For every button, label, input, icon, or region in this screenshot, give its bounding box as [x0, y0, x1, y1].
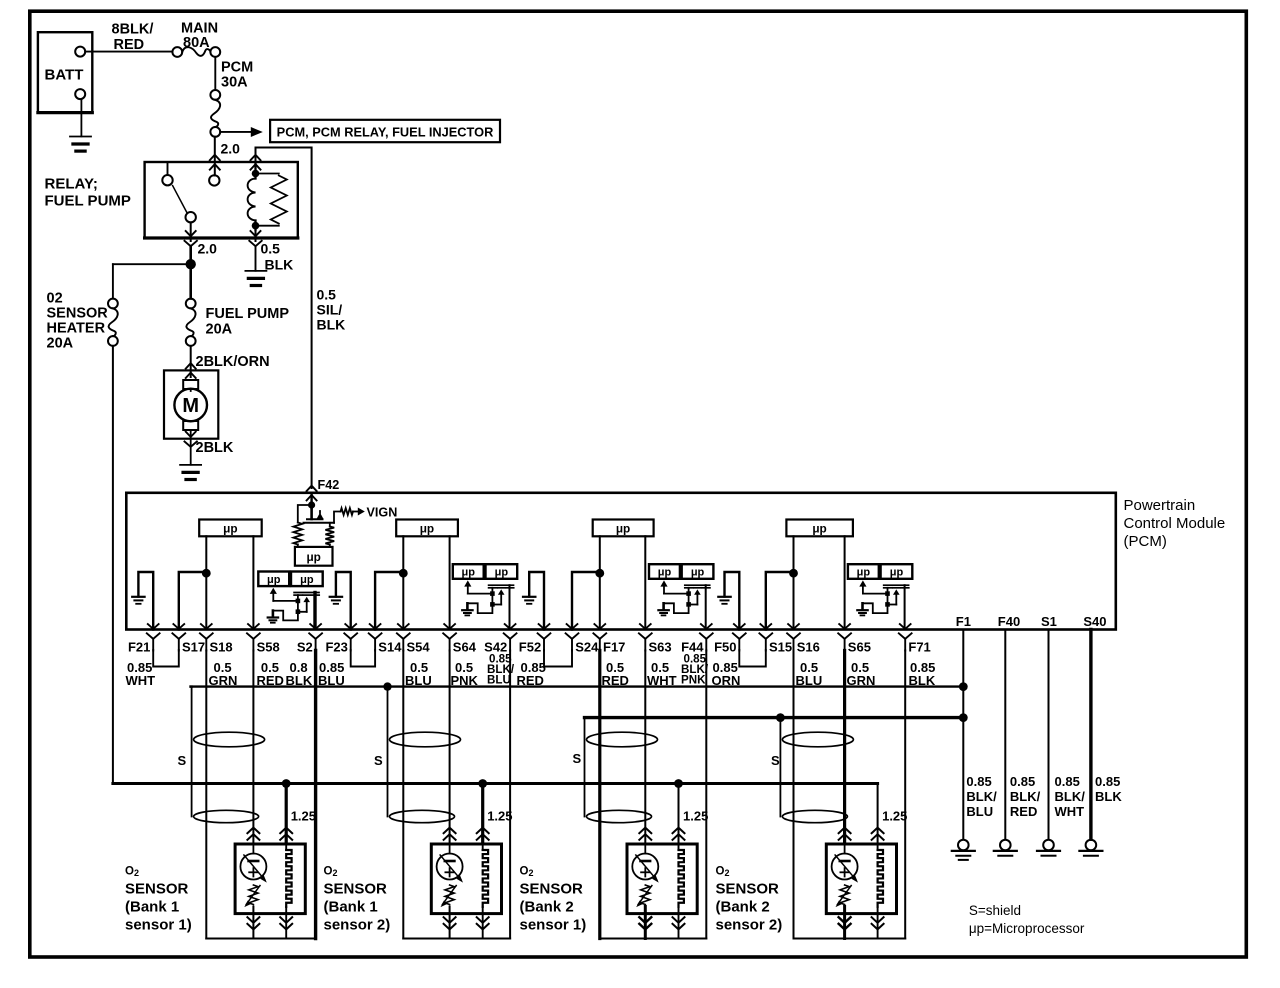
svg-text:S=shield: S=shield — [969, 903, 1021, 918]
node heater tap — [478, 779, 487, 788]
wire sensor minus — [252, 914, 254, 939]
ground (internal, F50) — [718, 596, 730, 598]
ground (internal, F21) — [132, 596, 144, 598]
relay switch common terminal — [209, 175, 219, 185]
svg-text:S14: S14 — [378, 640, 402, 655]
wire to pullup resistors — [298, 505, 312, 523]
svg-text:μp: μp — [812, 521, 826, 535]
node heater tap — [674, 779, 683, 788]
wire F40 to ground — [1004, 630, 1006, 840]
op-amp micro uP B group 3 — [682, 564, 714, 579]
svg-text:PCM, PCM RELAY, FUEL INJECTOR: PCM, PCM RELAY, FUEL INJECTOR — [277, 125, 494, 140]
wire shield drop S — [191, 687, 193, 817]
op-amp micro uP B group 4 — [881, 564, 913, 579]
svg-text:BLU: BLU — [487, 674, 511, 687]
wire microprocessor leg S65 — [844, 536, 846, 629]
arrows out of sensor — [444, 924, 456, 930]
transistor Q3 driver — [660, 580, 667, 586]
shield ellipse upper — [390, 732, 461, 747]
svg-text:μp: μp — [658, 567, 672, 579]
pin S64 — [444, 624, 455, 629]
shield ellipse lower — [390, 810, 455, 822]
svg-text:30A: 30A — [221, 75, 248, 91]
op-amp micro uP A group 3 — [649, 564, 680, 579]
svg-text:SENSOR: SENSOR — [520, 881, 584, 898]
pin S65 — [839, 624, 850, 629]
svg-text:2.0: 2.0 — [198, 241, 218, 257]
bus heater feed 1.25 — [113, 782, 878, 785]
svg-text:μp: μp — [300, 574, 314, 586]
wire F42 inside PCM — [310, 494, 312, 508]
svg-text:VIGN: VIGN — [367, 506, 398, 520]
wire 2BLK/ORN — [190, 346, 192, 377]
svg-text:F42: F42 — [318, 478, 340, 492]
wire P3 left drop group 2 — [402, 651, 404, 939]
relay coil feed chevrons (top) — [251, 155, 261, 160]
svg-text:Control Module: Control Module — [1124, 515, 1226, 532]
transistor Q4 driver — [859, 580, 866, 586]
transistor Q VIGN switch — [310, 505, 313, 519]
wire shield drop S — [584, 718, 586, 817]
shield ellipse lower — [587, 810, 652, 822]
wire bottom tie — [206, 938, 315, 940]
ground (S1) — [1043, 840, 1054, 851]
wire bottom tie — [403, 938, 510, 940]
svg-text:S18: S18 — [210, 640, 233, 655]
pin S17 — [173, 624, 184, 629]
fuse MAIN 80A — [172, 47, 182, 57]
wire heater minus — [482, 914, 484, 939]
svg-text:S: S — [374, 753, 383, 768]
pin F21 — [148, 624, 159, 629]
svg-text:sensor 1): sensor 1) — [125, 917, 192, 934]
svg-text:S54: S54 — [407, 640, 431, 655]
wire heater drop 1.25 — [877, 784, 879, 844]
wire 8BLK/RED battery feed — [85, 51, 172, 53]
svg-text:0.85: 0.85 — [966, 774, 991, 789]
sensor variable resistor — [641, 885, 650, 905]
ground (driver group 1) — [272, 611, 275, 617]
sensor cell circle — [844, 844, 846, 854]
ground (F1) — [958, 840, 969, 851]
wire to O2 heater fuse — [113, 263, 191, 265]
wire shield drop S — [779, 718, 781, 817]
wire S14 to junction — [375, 572, 403, 630]
svg-text:2.0: 2.0 — [221, 141, 241, 157]
ground (S40) — [1086, 840, 1097, 851]
svg-text:S2: S2 — [297, 640, 313, 655]
svg-text:PNK: PNK — [681, 674, 706, 687]
sensor variable resistor — [840, 885, 849, 905]
wire F1 to ground — [962, 630, 964, 840]
relay coil parallel resistor — [256, 173, 279, 175]
svg-text:RELAY;: RELAY; — [45, 176, 98, 193]
svg-text:S64: S64 — [453, 640, 477, 655]
wire driver source to ground group 2 — [467, 603, 492, 613]
wire ground lift pin F52 — [529, 572, 544, 630]
heater resistor element — [285, 844, 287, 850]
svg-text:(Bank 2: (Bank 2 — [716, 899, 770, 916]
svg-text:μp: μp — [267, 574, 281, 586]
svg-text:sensor 1): sensor 1) — [520, 917, 587, 934]
wire fuse to fuse — [214, 57, 216, 90]
svg-text:S16: S16 — [797, 640, 820, 655]
wire ground return drop — [314, 651, 317, 939]
svg-text:S: S — [178, 753, 187, 768]
ground (battery) — [70, 136, 91, 138]
pin S58 — [248, 624, 259, 629]
wire heater minus — [877, 914, 879, 939]
wire bridge F21-S17 — [153, 650, 179, 667]
svg-text:0.5: 0.5 — [317, 287, 337, 303]
svg-text:BLK/: BLK/ — [966, 789, 997, 804]
relay: fuel pump box — [145, 162, 298, 238]
wire microprocessor leg S18 — [205, 536, 207, 629]
wire microprocessor leg F17 — [599, 536, 601, 629]
svg-text:1.25: 1.25 — [683, 809, 708, 824]
battery BATT — [38, 32, 92, 112]
relay switch contact — [167, 163, 169, 175]
ground (driver group 3) — [662, 603, 665, 609]
pin S2 — [310, 624, 321, 629]
relay coil exit — [255, 229, 257, 241]
svg-text:μp: μp — [462, 567, 476, 579]
svg-text:S: S — [573, 751, 582, 766]
op-amp micro uP A group 2 — [453, 564, 484, 579]
node junction on S16 leg — [789, 569, 798, 578]
wire microprocessor leg S16 — [793, 536, 795, 629]
wire ground return drop — [904, 651, 906, 939]
svg-text:BLK: BLK — [265, 257, 294, 273]
wire sensor signal drop — [252, 651, 254, 844]
arrow head — [251, 127, 263, 137]
svg-text:S15: S15 — [769, 640, 792, 655]
pin F17 — [594, 624, 605, 629]
svg-text:BLK/: BLK/ — [1055, 789, 1086, 804]
wire microprocessor leg S58 — [252, 536, 254, 629]
pin F52 — [539, 624, 550, 629]
svg-text:O2: O2 — [324, 866, 338, 879]
wire P3 left drop group 3 — [598, 651, 601, 939]
transistor Q2 driver — [464, 580, 471, 586]
pin S63 — [640, 624, 651, 629]
wire S15 to junction — [766, 572, 794, 630]
svg-text:S1: S1 — [1041, 614, 1057, 629]
wire driver source to ground group 3 — [664, 603, 689, 613]
pin S16 — [788, 624, 799, 629]
wire ground lift pin F23 — [336, 572, 351, 630]
svg-text:FUEL PUMP: FUEL PUMP — [45, 193, 131, 210]
wire battery to ground — [80, 99, 82, 136]
node shield tap group4 — [776, 713, 785, 722]
svg-text:M: M — [182, 395, 199, 417]
sensor variable arrow — [440, 855, 461, 880]
heater resistor element — [877, 844, 879, 850]
wire driver source to ground group 1 — [273, 611, 298, 621]
arrows into sensor — [639, 828, 651, 834]
svg-text:F21: F21 — [128, 640, 150, 655]
box PCM, PCM RELAY, FUEL INJECTOR — [270, 120, 500, 142]
node bus1 to F1 — [959, 682, 968, 691]
svg-text:S63: S63 — [649, 640, 672, 655]
op-amp U4 microprocessor box group 4 — [786, 520, 853, 537]
wire microprocessor leg S54 — [402, 536, 404, 629]
svg-text:SENSOR: SENSOR — [125, 881, 189, 898]
node junction on S18 leg — [202, 569, 211, 578]
svg-text:WHT: WHT — [1055, 804, 1085, 819]
O2 sensor (bank/sensor) box group 3 — [627, 844, 697, 914]
wire S1 to ground — [1048, 630, 1050, 840]
svg-text:(Bank 1: (Bank 1 — [324, 899, 378, 916]
svg-text:S: S — [771, 753, 780, 768]
svg-text:(Bank 2: (Bank 2 — [520, 899, 574, 916]
shield ellipse upper — [194, 732, 265, 747]
op-amp U1 microprocessor box group 1 — [199, 520, 262, 537]
svg-text:SIL/: SIL/ — [317, 302, 343, 318]
node heater tap — [282, 779, 291, 788]
wire 2.0 to relay — [214, 137, 216, 176]
svg-text:μp: μp — [420, 521, 434, 535]
node junction on F17 leg — [595, 569, 604, 578]
bus shield ground 1 — [191, 685, 964, 687]
node junction on S54 leg — [399, 569, 408, 578]
ground (driver group 2) — [466, 603, 469, 609]
ground (internal, F23) — [330, 596, 342, 598]
svg-text:F40: F40 — [998, 614, 1020, 629]
svg-text:SENSOR: SENSOR — [47, 306, 109, 322]
relay switch output exits box — [190, 222, 192, 241]
svg-text:1.25: 1.25 — [882, 809, 907, 824]
wire bridge F50-S15 — [739, 650, 766, 667]
wire P3 left drop group 1 — [205, 651, 207, 939]
svg-text:PCM: PCM — [221, 60, 253, 76]
pin F44 — [701, 624, 712, 629]
svg-text:S65: S65 — [848, 640, 871, 655]
arrows into sensor — [444, 828, 456, 834]
sensor variable arrow — [636, 855, 657, 880]
svg-text:20A: 20A — [47, 336, 74, 352]
wire S24 to junction — [572, 572, 600, 630]
wire bridge F52-S24 — [544, 650, 572, 667]
wire sensor signal drop — [449, 651, 451, 844]
sensor cell circle — [449, 844, 451, 854]
svg-text:μp: μp — [890, 567, 904, 579]
svg-text:1.25: 1.25 — [291, 809, 316, 824]
wire 0.5 SIL/BLK from relay coil to PCM F42 — [256, 148, 312, 489]
svg-text:O2: O2 — [125, 866, 139, 879]
pin F71 — [900, 624, 911, 629]
svg-text:S24: S24 — [575, 640, 599, 655]
O2 sensor (bank/sensor) box group 2 — [431, 844, 501, 914]
svg-text:S17: S17 — [182, 640, 205, 655]
svg-text:(Bank 1: (Bank 1 — [125, 899, 179, 916]
svg-text:F52: F52 — [519, 640, 541, 655]
svg-text:0.85: 0.85 — [1055, 774, 1080, 789]
pin F23 — [345, 624, 356, 629]
shield ellipse upper — [587, 732, 658, 747]
wire microprocessor leg S64 — [449, 536, 451, 629]
fuse O2 sensor heater 20A — [108, 299, 118, 309]
wire heater drop 1.25 — [285, 784, 288, 844]
shield ellipse lower — [194, 810, 259, 822]
wire heater minus — [285, 914, 287, 939]
pin F50 — [734, 624, 745, 629]
resistor (right pull) — [329, 523, 331, 527]
motor M fuel pump — [164, 370, 218, 438]
wire 0.5 BLK relay coil ground — [255, 246, 257, 271]
wire to fuel injector arrow — [220, 131, 251, 133]
svg-text:02: 02 — [47, 291, 63, 307]
svg-text:μp: μp — [223, 521, 237, 535]
arrows out of sensor — [839, 924, 851, 930]
svg-text:μp=Microprocessor: μp=Microprocessor — [969, 921, 1085, 936]
svg-text:BLK/: BLK/ — [1010, 789, 1041, 804]
svg-text:BLU: BLU — [966, 804, 993, 819]
svg-text:Powertrain: Powertrain — [1124, 497, 1196, 514]
pin S24 — [567, 624, 578, 629]
svg-text:RED: RED — [1010, 804, 1037, 819]
arrows out of sensor — [639, 924, 651, 930]
wire ground return drop — [509, 651, 511, 939]
wire driver source to ground group 4 — [863, 603, 888, 613]
wire driver output to pin F44 — [705, 585, 707, 628]
wire bottom tie — [600, 938, 707, 940]
wire bridge F23-S14 — [351, 650, 375, 667]
svg-text:80A: 80A — [183, 35, 210, 51]
wire gate to VIGN — [334, 512, 341, 523]
ground (F40) — [1000, 840, 1011, 851]
op-amp micro uP A group 4 — [848, 564, 879, 579]
svg-text:F17: F17 — [603, 640, 625, 655]
sensor variable resistor — [445, 885, 454, 905]
svg-text:8BLK/: 8BLK/ — [112, 22, 154, 38]
heater resistor element — [482, 844, 484, 850]
op-amp micro uP B group 1 — [291, 572, 323, 587]
svg-text:BATT: BATT — [45, 67, 84, 84]
wire sensor minus — [449, 914, 451, 939]
svg-text:μp: μp — [306, 550, 320, 564]
heater resistor element — [678, 844, 680, 850]
sensor cell circle — [252, 844, 254, 854]
op-amp micro uP (VIGN monitor) — [295, 547, 333, 566]
arrows into sensor — [839, 828, 851, 834]
svg-text:sensor 2): sensor 2) — [716, 917, 783, 934]
wire heater drop 1.25 — [678, 784, 680, 844]
wire heater feed down left side — [112, 346, 114, 784]
node bus2 to F1 — [959, 713, 968, 722]
svg-text:2BLK/ORN: 2BLK/ORN — [196, 354, 270, 370]
svg-text:S58: S58 — [257, 640, 280, 655]
pin S42 — [505, 624, 516, 629]
svg-text:F23: F23 — [325, 640, 347, 655]
sensor variable resistor — [249, 885, 258, 905]
svg-text:F71: F71 — [908, 640, 930, 655]
wire sensor signal drop — [644, 651, 646, 844]
wire sensor minus — [843, 914, 846, 939]
wire heater drop 1.25 — [481, 784, 484, 844]
svg-text:RED: RED — [114, 37, 145, 53]
arrows into sensor — [247, 828, 259, 834]
svg-text:0.85: 0.85 — [1095, 774, 1120, 789]
svg-text:1.25: 1.25 — [487, 809, 512, 824]
ground (driver group 4) — [861, 603, 864, 609]
svg-text:O2: O2 — [716, 866, 730, 879]
O2 sensor (bank/sensor) box group 4 — [826, 844, 896, 914]
wire bottom tie — [794, 938, 906, 940]
svg-text:F1: F1 — [956, 614, 971, 629]
resistor (VIGN series) — [341, 508, 354, 515]
wire sensor minus — [644, 914, 647, 939]
wire driver output to pin S2 — [313, 593, 316, 629]
fuse FUEL PUMP 20A — [186, 299, 196, 309]
resistor (left pull) — [293, 523, 302, 545]
pin S18 — [201, 624, 212, 629]
wire heater minus — [678, 914, 680, 939]
wire ground return drop — [705, 651, 707, 939]
arrow to VIGN — [358, 508, 365, 516]
op-amp U2 microprocessor box group 2 — [396, 520, 458, 537]
svg-text:BLK: BLK — [1095, 789, 1122, 804]
svg-text:μp: μp — [691, 567, 705, 579]
wire ground lift pin F50 — [725, 572, 740, 630]
svg-text:O2: O2 — [520, 866, 534, 879]
wire shield drop S — [387, 687, 389, 817]
relay switch blade — [173, 186, 187, 213]
svg-text:S40: S40 — [1083, 614, 1106, 629]
ground (fuel pump motor) — [180, 464, 201, 466]
svg-text:20A: 20A — [206, 322, 233, 338]
svg-text:0.85: 0.85 — [1010, 774, 1035, 789]
transistor Q1 driver — [270, 588, 277, 594]
op-amp micro uP A group 1 — [258, 572, 289, 587]
svg-text:sensor 2): sensor 2) — [324, 917, 391, 934]
wire sensor signal drop — [843, 651, 846, 844]
svg-text:(PCM): (PCM) — [1124, 533, 1167, 550]
svg-text:F50: F50 — [714, 640, 736, 655]
node shield tap group2 — [383, 682, 391, 690]
pin S15 — [760, 624, 771, 629]
sensor variable arrow — [835, 855, 856, 880]
svg-text:WHT: WHT — [126, 673, 156, 688]
O2 sensor (bank/sensor) box group 1 — [235, 844, 305, 914]
wire S40 to ground — [1089, 630, 1092, 840]
wire ground lift pin F21 — [138, 572, 153, 630]
pin S14 — [370, 624, 381, 629]
svg-text:0.5: 0.5 — [261, 241, 281, 257]
PCM box Powertrain Control Module — [126, 493, 1116, 630]
arrows out of sensor — [247, 924, 259, 930]
sensor cell circle — [644, 844, 646, 854]
svg-text:μp: μp — [495, 567, 509, 579]
node junction fuel pump feed — [186, 259, 196, 269]
pin S54 — [398, 624, 409, 629]
relay coil — [254, 162, 256, 179]
svg-text:BLK: BLK — [317, 317, 346, 333]
shield ellipse lower — [782, 810, 847, 822]
ground (relay coil) — [245, 270, 266, 272]
bus shield ground 2 — [585, 716, 964, 719]
wire driver output to pin S42 — [509, 585, 511, 628]
wire S17 to junction — [179, 572, 207, 630]
svg-text:HEATER: HEATER — [47, 321, 106, 337]
op-amp micro uP B group 2 — [486, 564, 518, 579]
svg-text:2BLK: 2BLK — [196, 440, 234, 456]
sensor variable arrow — [244, 855, 265, 880]
shield ellipse upper — [782, 732, 853, 747]
svg-text:SENSOR: SENSOR — [716, 881, 780, 898]
svg-text:SENSOR: SENSOR — [324, 881, 388, 898]
wire P3 left drop group 4 — [793, 651, 795, 939]
